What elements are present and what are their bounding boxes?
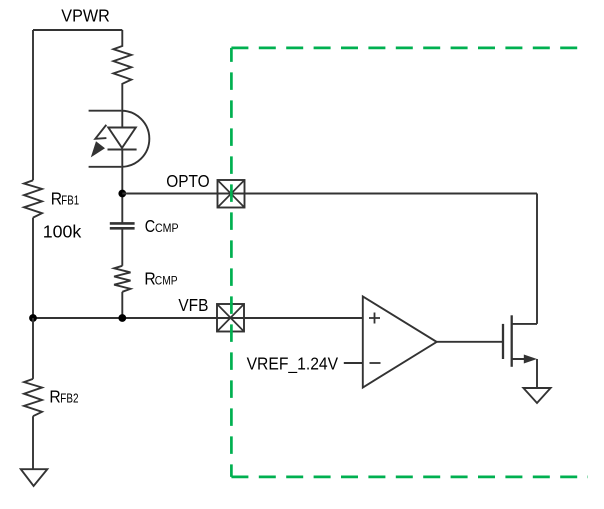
wire left vertical (VPWR to RFB1) [32, 30, 34, 180]
svg-text:VPWR: VPWR [61, 5, 110, 25]
junction dot VFB left [29, 314, 37, 322]
LED diode triangle [108, 128, 136, 148]
wire OPTO horizontal [122, 193, 537, 195]
svg-text:CMP: CMP [155, 274, 178, 288]
svg-text:C: C [145, 216, 155, 236]
wire op-amp output to gate [437, 341, 503, 343]
wire OPTO vertical down to MOSFET drain [536, 194, 538, 324]
svg-text:VFB: VFB [178, 295, 208, 315]
port symbol VFB (crossed box) [217, 304, 244, 332]
capacitor CCMP [110, 223, 135, 228]
svg-text:OPTO: OPTO [166, 171, 210, 191]
IC boundary green dashed left edge [230, 48, 233, 477]
IC boundary green dashed top edge [231, 47, 586, 50]
wire RCMP down to VFB node [121, 292, 123, 318]
wire RFB2 to ground [32, 416, 34, 469]
port symbol OPTO (crossed box) [218, 180, 245, 208]
junction dot OPTO node [118, 190, 126, 198]
LED cathode bar [108, 149, 137, 151]
svg-text:CMP: CMP [155, 221, 179, 235]
svg-text:R: R [49, 387, 60, 407]
wire LED cathode down to node [121, 150, 123, 224]
wire through LED vertical [121, 111, 123, 128]
transistor Q1 drain wire [512, 323, 537, 325]
wire capacitor to RCMP [121, 228, 123, 265]
op-amp minus sign [370, 362, 381, 364]
IC boundary green dashed bottom edge [231, 476, 588, 479]
wire VFB horizontal [33, 317, 363, 319]
transistor Q1 channel bar [511, 315, 513, 367]
wire VPWR top horizontal [33, 29, 122, 31]
svg-text:FB2: FB2 [60, 392, 78, 406]
resistor RFB1 [24, 180, 42, 217]
wire source to ground [536, 359, 538, 387]
svg-text:VREF_1.24V: VREF_1.24V [247, 353, 339, 374]
wire VFB node down to RFB2 [32, 318, 34, 379]
transistor Q1 source arrow [524, 355, 537, 364]
resistor RFB2 [24, 379, 42, 416]
transistor Q1 gate bar [502, 324, 504, 359]
LED emission lightning arrow [91, 125, 107, 158]
op-amp plus sign [369, 313, 380, 324]
wire VREF to op-amp inverting input [344, 362, 363, 364]
svg-text:100k: 100k [43, 222, 82, 242]
ground (right) [523, 388, 550, 403]
resistor RCMP [114, 266, 130, 292]
optocoupler LED package arc [89, 111, 150, 167]
ground (left) [21, 469, 48, 486]
junction dot VFB RCMP [118, 314, 126, 322]
svg-text:FB1: FB1 [61, 194, 79, 208]
transistor Q1 source wire [512, 358, 531, 360]
resistor R (upper, unlabeled) [113, 30, 131, 111]
wire RFB1 to VFB node [32, 218, 34, 318]
op-amp U1 [363, 296, 437, 387]
